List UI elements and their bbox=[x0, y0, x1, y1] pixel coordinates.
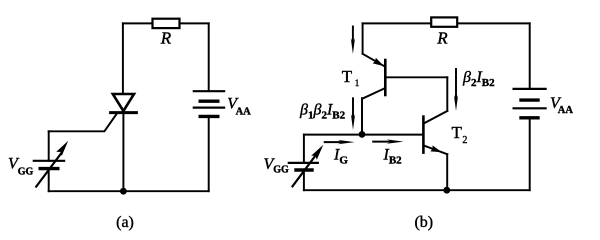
svg-text:(b): (b) bbox=[414, 214, 433, 231]
battery V_GG (circuit b) plates bbox=[289, 163, 318, 170]
variable-source arrow through V_GG (circuit b) bbox=[293, 145, 324, 187]
current arrow: I_G rightward (b) bbox=[325, 140, 355, 144]
wire: T1 base line to T2 collector bbox=[386, 76, 447, 78]
thyristor cathode bar bbox=[111, 111, 137, 114]
thyristor (SCR) circuit (a): triangle bbox=[113, 94, 134, 111]
svg-text:(a): (a) bbox=[116, 214, 134, 231]
wire: circuit (b) bottom wire bbox=[304, 189, 530, 191]
svg-text:R: R bbox=[160, 29, 172, 48]
transistor Q T1 emitter diagonal with arrow (PNP) bbox=[363, 54, 385, 67]
wire: V_GG branch bottom vertical (circuit b) bbox=[303, 170, 305, 190]
wire: V_GG branch top vertical (circuit b) bbox=[303, 135, 305, 163]
wire: circuit (a) top wire bbox=[123, 22, 209, 24]
node: junction dot circuit (a) bottom bbox=[120, 188, 127, 195]
wire: circuit (a) cathode lead down bbox=[122, 113, 124, 192]
wire: circuit (a) bottom wire bbox=[49, 190, 209, 192]
wire: circuit (b) left vertical emitter lead of T1 bbox=[362, 23, 364, 53]
transistor T1 collector diagonal bbox=[363, 88, 385, 98]
battery V_AA (circuit a) bbox=[194, 91, 224, 116]
wire: circuit (b) top wire bbox=[363, 22, 530, 24]
wire: T1 collector vertical down to gate node bbox=[361, 98, 363, 134]
transistor T2 base bar bbox=[422, 117, 425, 153]
current arrow: beta2 I_B2 downward (b) bbox=[454, 69, 458, 111]
wire: circuit (a) left vertical (anode lead) bbox=[122, 23, 124, 94]
transistor T1 base bar bbox=[384, 60, 387, 95]
svg-text:R: R bbox=[436, 29, 448, 48]
wire: V_GG branch top vertical (circuit a) bbox=[48, 131, 50, 161]
resistor R (circuit b) bbox=[431, 17, 457, 26]
current arrow: anode current top-left (b) bbox=[351, 27, 355, 55]
wire: T2 emitter vertical down to bottom wire bbox=[446, 154, 448, 190]
node: junction dot at gate node (b) bbox=[359, 131, 366, 138]
wire: gate lead (diagonal + horizontal) circuit (a) bbox=[49, 113, 118, 131]
wire: circuit (a) right vertical (battery top lead) bbox=[208, 23, 210, 90]
wire: circuit (a) right vertical (battery bottom lead) bbox=[208, 118, 210, 191]
node: junction dot circuit (b) bottom bbox=[443, 187, 450, 194]
resistor R (circuit a) bbox=[153, 19, 180, 28]
wire: circuit (b) right vertical (battery top lead) bbox=[529, 23, 531, 88]
transistor T2 emitter diagonal with arrow (NPN) bbox=[425, 145, 448, 154]
variable-source arrow through V_GG (circuit a) bbox=[36, 141, 68, 187]
current arrow: I_B2 rightward (b) bbox=[373, 139, 403, 143]
current arrow: beta1 beta2 I_B2 downward (b) bbox=[351, 98, 355, 130]
battery V_AA (circuit b) bbox=[514, 89, 546, 118]
wire: gate line from V_GG corner to T2 base bbox=[304, 134, 424, 136]
wire: circuit (b) right vertical (battery bottom lead) bbox=[529, 120, 531, 191]
wire: V_GG branch bottom vertical (circuit a) bbox=[48, 169, 50, 192]
battery V_GG (circuit a) plates bbox=[34, 161, 64, 169]
transistor T2 collector diagonal bbox=[425, 111, 448, 123]
wire: T2 collector vertical from base line corner bbox=[446, 77, 448, 111]
